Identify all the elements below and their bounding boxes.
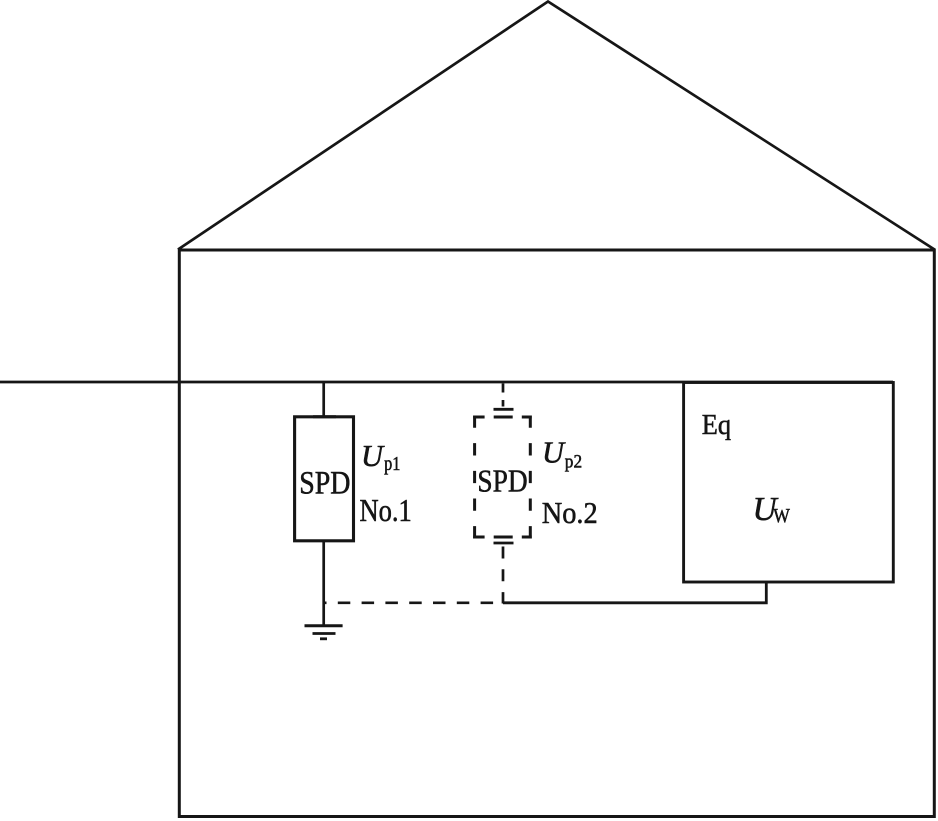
wire: dashed tap from bus to SPD2 (494, 384, 514, 410)
label Up1 (361, 439, 400, 475)
svg-text:No.1: No.1 (360, 493, 412, 528)
wire: dashed SPD2 to bonding conductor (494, 543, 514, 604)
label No.2 (542, 495, 598, 530)
svg-text:p2: p2 (565, 452, 582, 473)
house walls (LPZ boundary) (179, 250, 934, 817)
label No.1 (360, 493, 412, 528)
label Uw (753, 491, 790, 528)
ground (earth electrode) (305, 626, 343, 639)
SPD No.1 box (295, 417, 354, 541)
label Up2 (542, 436, 582, 473)
wire: dashed equipotential bonding conductor (ground node to SPD2 branch) (324, 601, 504, 604)
wire: SPD1 to earth (322, 541, 325, 626)
svg-text:U: U (542, 436, 566, 470)
svg-text:p1: p1 (384, 453, 400, 475)
wire: bonding conductor to equipment Eq (503, 582, 766, 603)
svg-text:U: U (361, 439, 385, 473)
svg-text:SPD: SPD (477, 462, 527, 498)
equipment Eq box (684, 383, 894, 583)
SPD No.2 dashed box (473, 416, 532, 539)
wire: bus to SPD1 (313, 382, 336, 417)
svg-text:No.2: No.2 (542, 495, 598, 530)
svg-text:W: W (773, 505, 790, 527)
svg-text:SPD: SPD (299, 465, 350, 501)
roof (178, 2, 935, 250)
label SPD (No.2) (477, 462, 527, 498)
svg-text:Eq: Eq (702, 409, 731, 441)
wire: incoming service line (power bus) (0, 381, 893, 384)
label Eq (702, 409, 731, 441)
label SPD (No.1) (299, 465, 350, 501)
